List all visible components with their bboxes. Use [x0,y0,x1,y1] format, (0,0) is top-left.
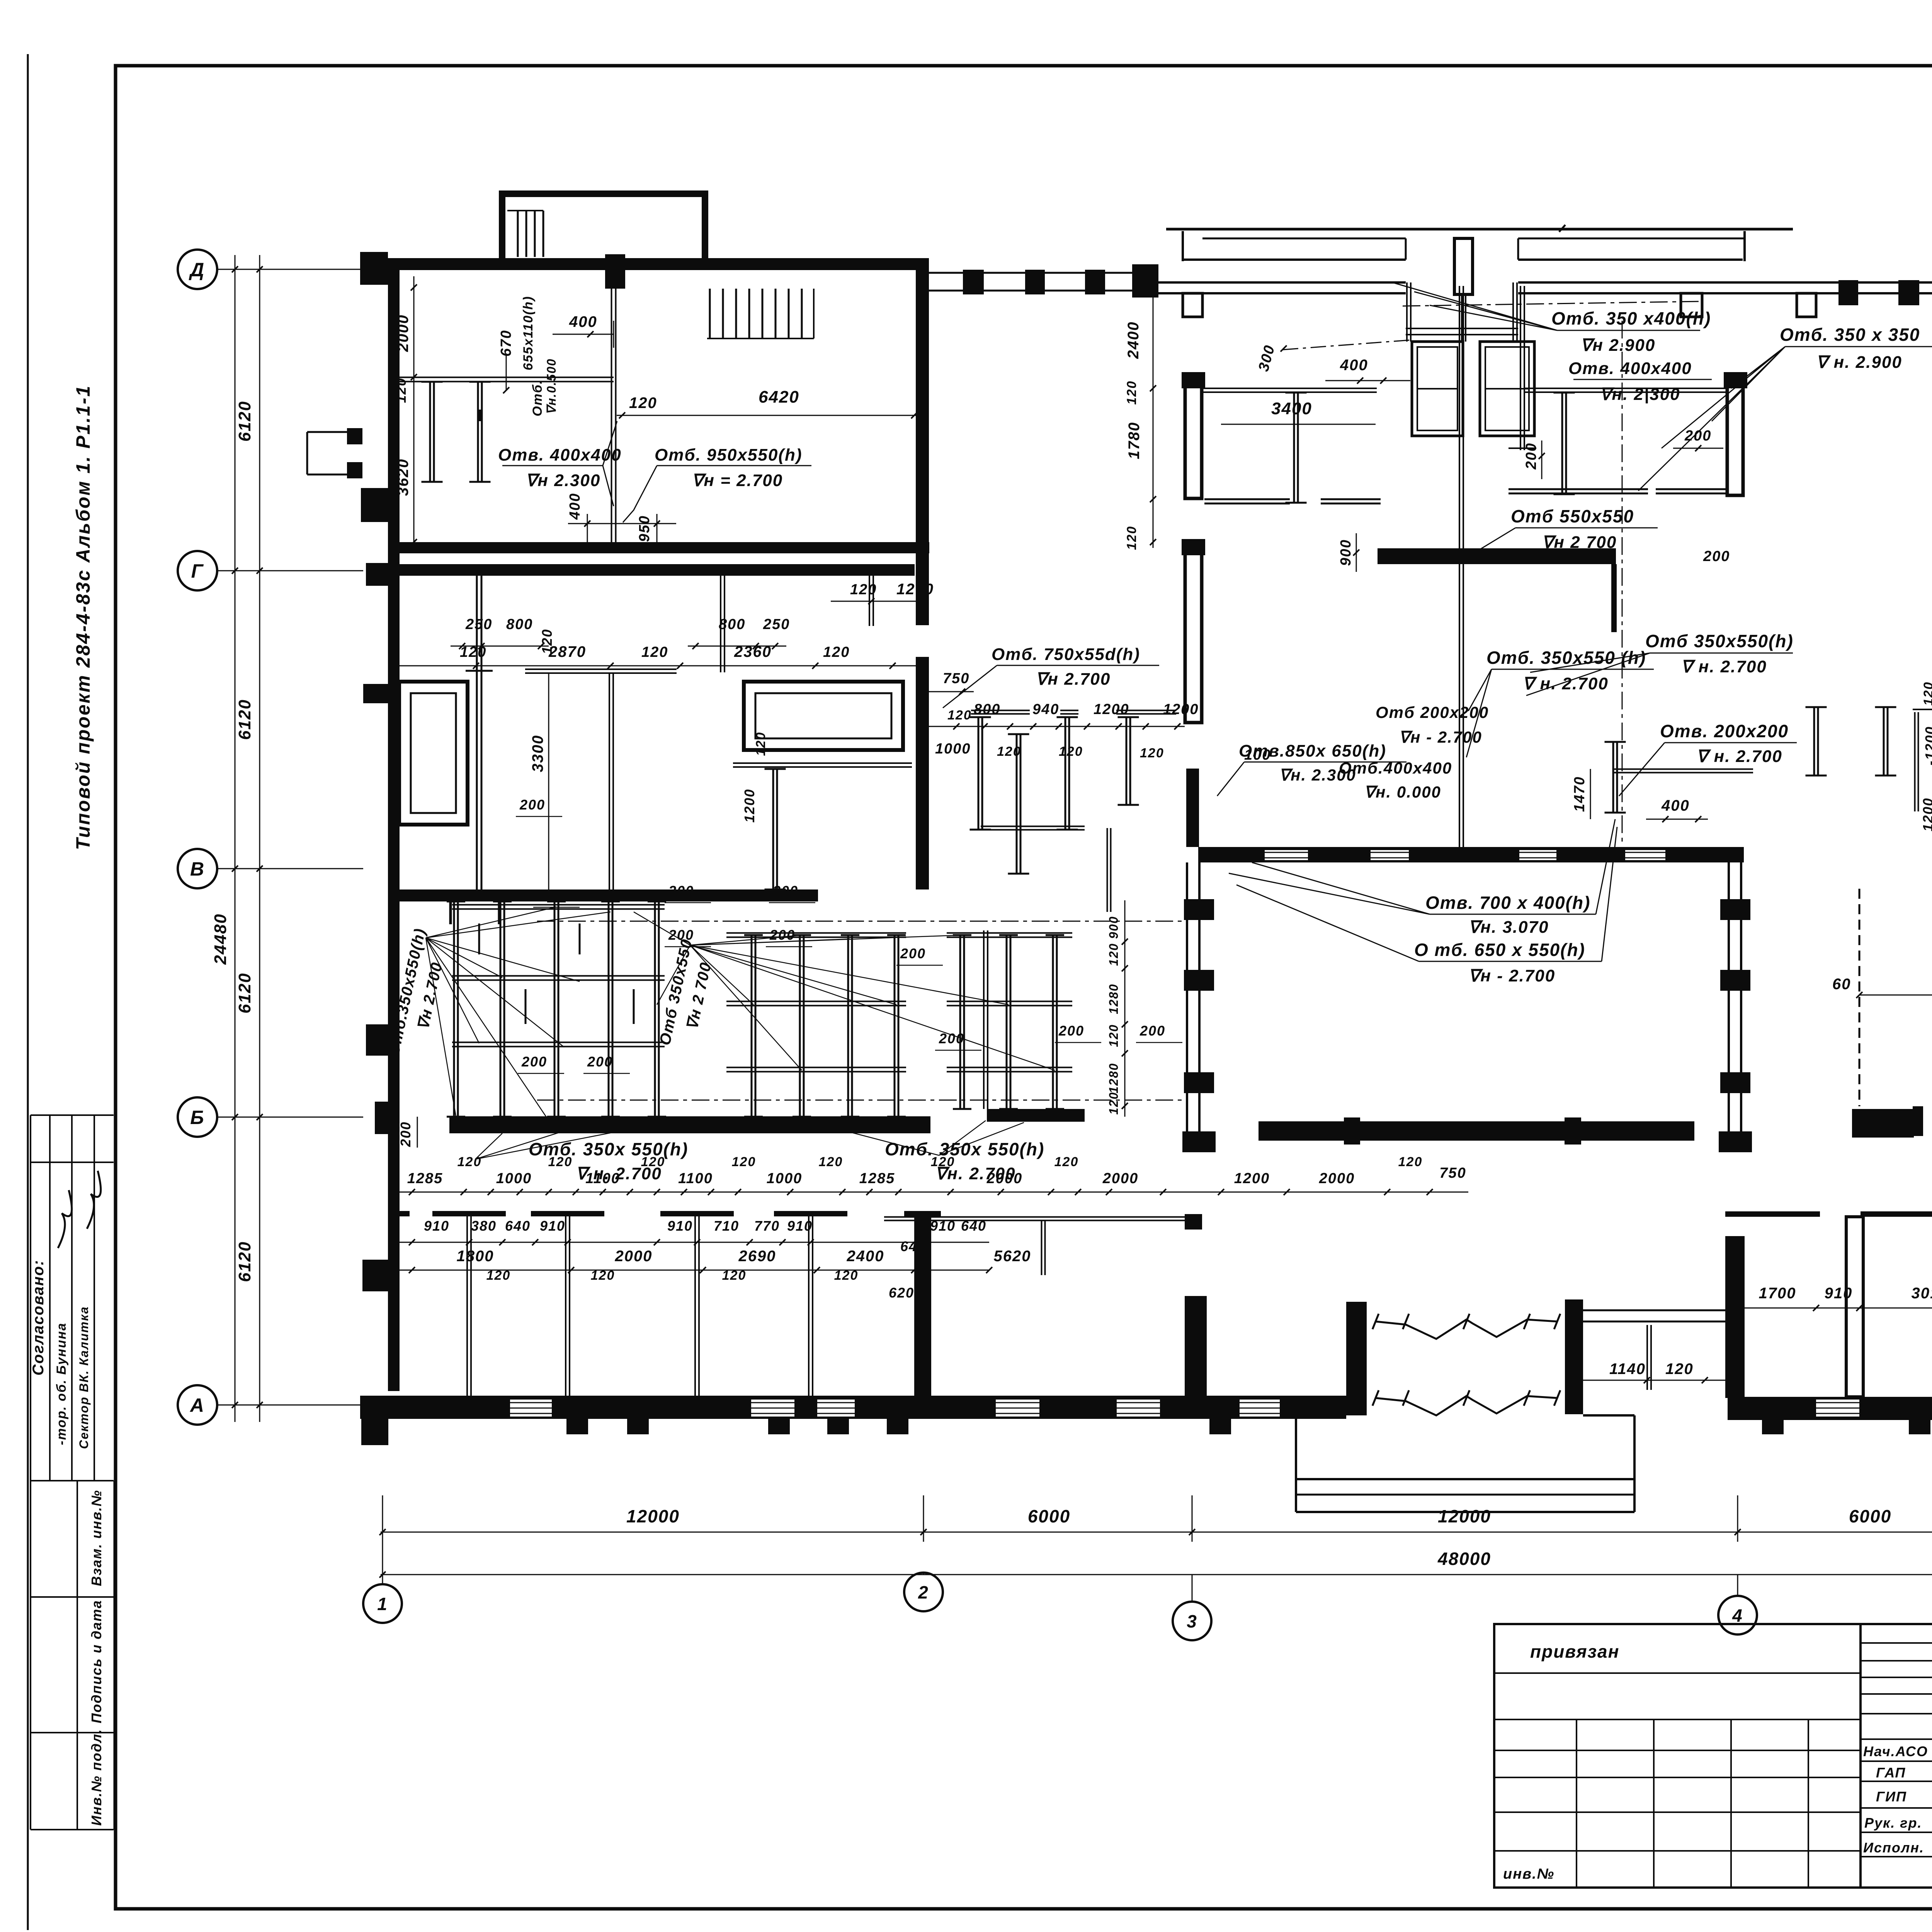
svg-text:1280: 1280 [1107,1063,1121,1093]
svg-text:4: 4 [1732,1605,1743,1626]
svg-text:250: 250 [465,616,492,633]
svg-text:200: 200 [1139,1023,1165,1039]
I-beam partitions in top-left room [429,382,431,482]
svg-text:2000: 2000 [615,1248,653,1265]
svg-text:6000: 6000 [1849,1506,1891,1526]
cubicle second block rows [947,932,1072,934]
svg-text:120: 120 [1140,746,1164,760]
pier right interior [1727,378,1743,495]
dim row1 B-A [400,1192,1185,1193]
svg-text:Отб 200х200: Отб 200х200 [1376,703,1489,721]
svg-text:200: 200 [668,927,694,943]
center dash-dot axis [1622,321,1623,846]
svg-text:120: 120 [486,1268,511,1283]
svg-text:Согласовано:: Согласовано: [30,1260,47,1376]
svg-text:∇н 2.300: ∇н 2.300 [526,471,600,490]
svg-text:2000: 2000 [1319,1170,1355,1187]
porch break lines [1376,1320,1557,1339]
svg-text:200: 200 [519,797,545,813]
vertical dim column x2911 [1124,900,1126,1117]
svg-text:Нач.АСО 4: Нач.АСО 4 [1863,1743,1932,1759]
column on wall [605,254,625,289]
svg-text:910: 910 [787,1218,813,1234]
T-wall cap [904,1211,941,1216]
svg-text:940: 940 [1032,701,1059,718]
svg-text:900: 900 [1338,539,1354,566]
svg-text:3010: 3010 [1912,1285,1932,1302]
svg-text:О тб. 650 х 550(h): О тб. 650 х 550(h) [1414,940,1585,960]
svg-text:910: 910 [667,1218,693,1234]
svg-text:2400: 2400 [1125,321,1142,359]
hatched thin partition near center [1859,889,1861,1106]
interior partition vertical x1588 [611,288,612,542]
dash-dot centerlines cubicles [537,921,1182,922]
cubicle top flanges V-G band [971,710,1030,711]
svg-text:12000: 12000 [1438,1506,1491,1526]
svg-text:200: 200 [398,1121,413,1147]
svg-text:∇н 2 700: ∇н 2 700 [1542,533,1617,552]
svg-text:3400: 3400 [1271,399,1312,418]
svg-text:Отв. 400x400: Отв. 400x400 [498,446,622,464]
pool left (G-V) [399,682,468,825]
pier left of entrance interior [1185,378,1202,498]
svg-text:640: 640 [961,1218,986,1234]
partition 3400 wall [1202,388,1377,389]
svg-text:750: 750 [943,670,969,687]
svg-text:200: 200 [668,883,694,899]
svg-text:910: 910 [930,1218,956,1234]
svg-text:750: 750 [1439,1165,1466,1181]
dims 250 800 row [451,646,549,647]
svg-text:Отб. 750x55d(h): Отб. 750x55d(h) [992,645,1140,664]
svg-text:∇н. 3.070: ∇н. 3.070 [1468,918,1549,937]
top-left corner pilaster [360,252,388,285]
svg-text:120: 120 [819,1155,843,1169]
svg-text:Исполн.: Исполн. [1863,1840,1924,1855]
title block signature table [1861,1624,1932,1888]
svg-text:Отб 550х550: Отб 550х550 [1511,506,1634,526]
cubicle block left rows [452,904,665,906]
svg-text:∇н.0.500: ∇н.0.500 [544,358,558,415]
svg-text:Отб.: Отб. [530,379,545,416]
svg-text:1200: 1200 [1094,701,1129,718]
svg-text:640: 640 [900,1238,926,1254]
A wall pilasters [566,1419,588,1434]
svg-text:1700: 1700 [1759,1285,1796,1302]
svg-text:1470: 1470 [1571,776,1588,812]
svg-text:3620: 3620 [395,459,412,496]
svg-text:400: 400 [1661,797,1690,814]
V band partitions center-left [1459,286,1460,847]
wall axis A right part [1728,1397,1932,1420]
svg-text:655x110(h): 655x110(h) [521,296,536,370]
svg-text:120: 120 [641,1155,665,1169]
entrance sill lines [1406,328,1518,329]
svg-text:120: 120 [1107,1092,1121,1114]
svg-text:120: 120 [1059,744,1083,759]
svg-text:1800: 1800 [457,1248,494,1265]
bottom axis circles [382,1542,383,1584]
leader fans cubicles [426,907,611,1121]
svg-text:120: 120 [997,744,1021,759]
svg-text:120: 120 [641,644,668,660]
svg-text:2400: 2400 [847,1248,884,1265]
pool right (G-V) [744,682,903,750]
svg-text:120: 120 [732,1155,756,1169]
svg-text:Отв. 200х200: Отв. 200х200 [1660,721,1789,741]
corner post [1132,264,1158,298]
svg-text:800: 800 [719,616,745,633]
svg-text:48000: 48000 [1437,1549,1491,1569]
svg-text:Отб 350х550(h): Отб 350х550(h) [1645,631,1794,651]
vertical dim 3300 [548,673,549,889]
svg-text:120: 120 [1921,682,1932,706]
svg-text:-1200: -1200 [1922,726,1932,765]
left dimension line 6120 column [235,255,236,1422]
svg-text:120: 120 [931,1155,955,1169]
dims row 120 800 940 1200 1200 [929,726,1185,727]
svg-text:1000: 1000 [935,741,971,757]
window band right of entrance [1838,280,1858,305]
svg-text:А: А [189,1395,205,1416]
svg-text:В: В [190,858,205,880]
partition x1240 [476,576,478,889]
dim 2400 column [1153,284,1154,548]
svg-text:120: 120 [753,732,768,756]
svg-text:1200: 1200 [896,581,934,598]
svg-text:2000: 2000 [395,315,412,352]
svg-text:200: 200 [1523,442,1539,469]
svg-text:2870: 2870 [548,643,586,660]
partition y1995 center [1612,769,1753,770]
svg-text:∇н. 0.000: ∇н. 0.000 [1364,783,1441,801]
svg-text:380: 380 [471,1218,497,1234]
cubicle block left I-beams [453,901,455,1117]
bottom flanges center-left [1204,498,1290,500]
svg-text:Подпись и дата: Подпись и дата [88,1600,104,1723]
axis circle А [178,1385,217,1425]
svg-text:инв.№: инв.№ [1503,1866,1554,1882]
svg-text:950: 950 [636,515,653,542]
wall axis G left section [388,542,929,553]
B-A partition caps right [1725,1211,1820,1217]
porch left wall [1346,1302,1367,1415]
svg-text:1200: 1200 [742,789,757,823]
canopy over entrance [1166,228,1793,231]
svg-text:120: 120 [1124,526,1139,550]
svg-text:Типовой проект 284-4-83с: Типовой проект 284-4-83с Альбом 1. Р1.1-… [72,385,94,850]
svg-text:120: 120 [823,644,850,660]
svg-text:120: 120 [1054,1155,1079,1169]
svg-text:1000: 1000 [767,1170,803,1187]
svg-text:120: 120 [1398,1155,1423,1169]
svg-text:6120: 6120 [235,401,254,442]
svg-text:∇н - 2.700: ∇н - 2.700 [1468,966,1555,985]
svg-text:∇ н. 2.700: ∇ н. 2.700 [1681,657,1767,676]
svg-text:910: 910 [1825,1285,1853,1302]
svg-text:2000: 2000 [986,1170,1023,1187]
svg-text:120: 120 [591,1268,615,1283]
svg-text:200: 200 [772,883,798,899]
interior dim column top-left [413,276,415,542]
left wall pilaster [361,488,388,522]
B-A mid partition 5620 wall [914,1216,931,1396]
wall axis G center segment [1378,548,1616,564]
svg-text:Д: Д [189,259,205,281]
axis circle Г [178,551,217,590]
axis-2 wall lower [916,657,929,889]
svg-text:120: 120 [722,1268,747,1283]
svg-text:1000: 1000 [496,1170,532,1187]
svg-text:200: 200 [939,1031,964,1046]
dim row2 B-A [400,1242,989,1243]
svg-text:900: 900 [1107,916,1121,939]
cubicle block right I-beams [751,935,753,1117]
svg-text:∇ н. 2.700: ∇ н. 2.700 [1522,674,1609,693]
svg-text:200: 200 [1703,548,1730,565]
porch right wall [1565,1299,1583,1414]
svg-text:1200: 1200 [1920,798,1932,832]
cubicle I-beams V-G band [978,717,980,830]
left margin table lower [30,1481,31,1830]
svg-text:Отв.850х 650(h): Отв.850х 650(h) [1239,742,1386,760]
I-beam x3354 [1293,393,1295,503]
interior stair below wall [709,289,711,338]
svg-text:640: 640 [505,1218,531,1234]
left margin table upper [30,1115,31,1481]
wall axis A left part [360,1396,1346,1419]
svg-text:Отб.400х400: Отб.400х400 [1339,759,1452,777]
dim row3 B-A [400,1270,989,1271]
svg-text:120: 120 [1107,943,1121,966]
svg-text:1: 1 [377,1594,388,1614]
svg-text:6120: 6120 [235,1241,254,1282]
svg-text:2000: 2000 [1102,1170,1139,1187]
B-A right partition stub [1041,1221,1043,1275]
svg-text:12000: 12000 [626,1506,680,1526]
bottom dimension line spans [381,1532,1932,1533]
svg-text:∇ н. 2.900: ∇ н. 2.900 [1816,353,1902,372]
svg-text:1100: 1100 [585,1170,620,1187]
partition horizontal y1737 [525,668,677,670]
left exterior wall upper [388,270,400,543]
svg-text:1780: 1780 [1126,422,1143,459]
svg-text:1200: 1200 [1234,1170,1270,1187]
partition vertical x1582 [609,673,610,889]
axis-3 wall segments [1186,769,1199,847]
svg-text:910: 910 [424,1218,449,1234]
svg-text:∇н - 2.700: ∇н - 2.700 [1399,728,1482,746]
svg-text:Отв. 400х400: Отв. 400х400 [1568,359,1692,378]
svg-text:6420: 6420 [759,388,799,406]
left porch steps [347,428,362,444]
svg-text:Отб. 350 х 350: Отб. 350 х 350 [1780,325,1920,345]
axis-4 wall with pilasters [1728,862,1730,1131]
title block attach table [1494,1624,1861,1888]
ventilation shaft A [1412,342,1463,436]
partitions near right pier [1524,388,1726,389]
svg-text:60: 60 [1832,976,1851,993]
svg-text:Инв.№ подл.: Инв.№ подл. [88,1729,104,1826]
svg-text:Г: Г [191,560,204,582]
svg-text:3300: 3300 [529,735,546,772]
svg-text:710: 710 [714,1218,739,1234]
svg-text:привязан: привязан [1530,1641,1619,1662]
svg-text:400: 400 [567,493,583,520]
svg-text:Отб. 350 x400(h): Отб. 350 x400(h) [1551,308,1711,328]
partition corner piece [981,826,1085,827]
svg-text:120: 120 [1107,1024,1121,1047]
sheet left edge line [27,54,29,1930]
wall axis V center segment [1198,847,1744,862]
exterior wall axis D left segment [388,258,916,270]
svg-text:∇н 2.900: ∇н 2.900 [1580,336,1655,355]
stair protrusion top-left [499,190,505,259]
svg-text:770: 770 [754,1218,780,1234]
svg-text:6000: 6000 [1028,1506,1070,1526]
svg-text:1100: 1100 [678,1170,713,1187]
svg-text:400: 400 [1340,357,1368,374]
partition y1980 right room [733,762,912,764]
left exterior wall below G [388,553,400,889]
dim row B-A right [1727,1308,1932,1309]
svg-text:Взам. инв.№: Взам. инв.№ [88,1490,104,1586]
svg-text:910: 910 [540,1218,565,1234]
svg-text:120: 120 [1124,381,1139,405]
svg-text:120: 120 [947,708,972,723]
svg-text:120: 120 [629,395,657,412]
cubicle block right rows [726,932,906,934]
dash-dot at entrance [1403,301,1700,306]
entrance center pier [1454,238,1473,294]
svg-text:120: 120 [834,1268,859,1283]
svg-text:∇ н. 2.700: ∇ н. 2.700 [1696,747,1782,766]
entrance door jambs [1406,282,1408,342]
svg-text:2: 2 [918,1582,929,1602]
I-beam partitions center gap [1913,709,1932,710]
svg-text:ГАП: ГАП [1876,1765,1906,1781]
svg-text:800: 800 [506,616,533,633]
cubicle bottom bar left [449,1116,930,1133]
svg-text:200: 200 [521,1054,547,1070]
svg-text:ГИП: ГИП [1876,1789,1907,1804]
svg-text:-тор. об. Бунина: -тор. об. Бунина [54,1322,69,1445]
dim row 2870 2360 [400,665,916,667]
interior partition horizontal top-left room [400,377,614,378]
svg-text:5620: 5620 [994,1248,1031,1265]
svg-text:Отб. 350х 550(h): Отб. 350х 550(h) [885,1139,1044,1159]
svg-text:800: 800 [974,701,1000,718]
ventilation shaft B [1480,342,1534,436]
axis circle В [178,849,217,888]
svg-text:120: 120 [460,644,486,660]
partition x1870 pieces [720,576,721,672]
svg-text:200: 200 [900,946,926,961]
svg-text:Отб. 950x550(h): Отб. 950x550(h) [655,446,803,464]
wall axis B center bar [1259,1121,1694,1141]
svg-text:250: 250 [763,616,790,633]
B-A partitions left [466,1216,468,1396]
svg-text:120: 120 [393,378,409,403]
partition x2006 with I flange [772,769,774,889]
svg-text:200: 200 [587,1054,613,1070]
svg-text:1280: 1280 [1107,983,1121,1014]
svg-text:2690: 2690 [738,1248,776,1265]
svg-text:∇н = 2.700: ∇н = 2.700 [692,471,783,490]
hollow pilasters under wall [1183,293,1202,317]
wall axis V left segment [388,889,818,901]
svg-text:200: 200 [537,888,563,903]
svg-text:1140: 1140 [1609,1361,1646,1378]
svg-text:2360: 2360 [734,643,772,660]
svg-text:Рук. гр.: Рук. гр. [1864,1815,1922,1831]
window band left of entrance [929,272,1134,274]
svg-text:Отв. 700 х 400(h): Отв. 700 х 400(h) [1425,893,1590,913]
axis circle Б [178,1097,217,1137]
svg-text:∇н 2.700: ∇н 2.700 [1036,670,1111,689]
svg-text:1200: 1200 [1163,701,1199,718]
porch slab with steps [1295,1415,1297,1512]
axis-2 wall upper [916,258,929,296]
svg-text:120: 120 [457,1155,482,1169]
partition horizontal y3154 [884,1216,1185,1218]
svg-text:6120: 6120 [235,973,254,1014]
svg-text:120: 120 [548,1155,573,1169]
svg-text:120: 120 [1665,1361,1694,1378]
svg-text:Б: Б [190,1107,204,1128]
svg-text:1285: 1285 [407,1170,443,1187]
svg-text:3: 3 [1187,1611,1197,1631]
dim 120 6420 [617,415,916,416]
left exterior wall below V [388,901,400,1391]
svg-text:620: 620 [889,1285,914,1301]
wall below hatched partition [1846,1217,1863,1397]
A wall window slots [510,1400,552,1417]
svg-text:6120: 6120 [235,699,254,740]
corridor double wall below G [388,564,915,576]
svg-text:200: 200 [769,927,795,943]
svg-text:400: 400 [569,313,597,330]
svg-text:670: 670 [498,330,514,356]
axis circle Д [178,250,217,289]
room 1140 near porch [1583,1310,1728,1311]
svg-text:∇н. 2|300: ∇н. 2|300 [1600,385,1680,404]
svg-text:24480: 24480 [211,913,230,965]
top wall of middle section double line [1157,281,1406,284]
svg-text:200: 200 [1058,1023,1084,1039]
svg-text:1285: 1285 [859,1170,895,1187]
svg-text:Сектор ВК. Калитка: Сектор ВК. Калитка [77,1306,91,1449]
cubicle bottom bar right [987,1109,1085,1122]
